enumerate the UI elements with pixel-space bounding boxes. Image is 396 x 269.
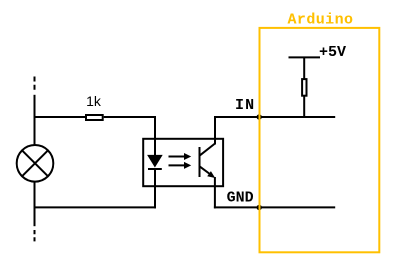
wire: dashed continuation top-left (34, 77, 36, 91)
svg-text:IN: IN (235, 97, 254, 114)
wire: emitter vertical down out of optocoupler (214, 177, 216, 208)
wire: bottom-left horizontal (lamp to opto cathode) (34, 206, 157, 208)
resistor R1 body (86, 115, 103, 120)
transistor Q1 collector diagonal (200, 144, 216, 156)
wire: dashed continuation bottom-left (34, 230, 36, 242)
LED D1 cathode bar (148, 168, 162, 170)
wire: IN horizontal (214, 116, 335, 118)
optocoupler U1 box (143, 139, 223, 186)
wire: resistor to optocoupler anode corner (104, 116, 156, 118)
wire: lamp bottom vertical (34, 181, 36, 226)
resistor R2 pull-up body (302, 79, 306, 96)
lamp (17, 145, 54, 182)
node GND junction dot (257, 205, 262, 210)
wire: +5V stem (303, 57, 305, 80)
wire: anode vertical down into optocoupler (154, 116, 156, 157)
Arduino board outline (260, 28, 380, 252)
wire: vertical from dashed to lamp top (34, 95, 36, 146)
optocoupler light arrow 2 (169, 164, 186, 166)
wire: pull-up to IN line (303, 96, 305, 118)
svg-text:+5V: +5V (319, 44, 346, 61)
node IN junction dot (257, 114, 262, 119)
optocoupler light arrow 1 (169, 156, 186, 158)
wire: collector vertical up out of optocoupler (214, 116, 216, 145)
svg-text:GND: GND (227, 190, 254, 207)
svg-text:1k: 1k (86, 93, 102, 109)
wire: GND horizontal (214, 206, 335, 208)
LED D1 triangle (anode) (148, 155, 162, 166)
svg-text:Arduino: Arduino (288, 12, 354, 29)
transistor Q1 emitter diagonal with arrow (200, 166, 211, 174)
wire: horizontal from junction to resistor R1 (34, 116, 87, 118)
transistor Q1 base bar (199, 147, 201, 177)
wire: cathode vertical down out of optocoupler (154, 169, 156, 208)
power +5V rail bar (289, 56, 321, 58)
